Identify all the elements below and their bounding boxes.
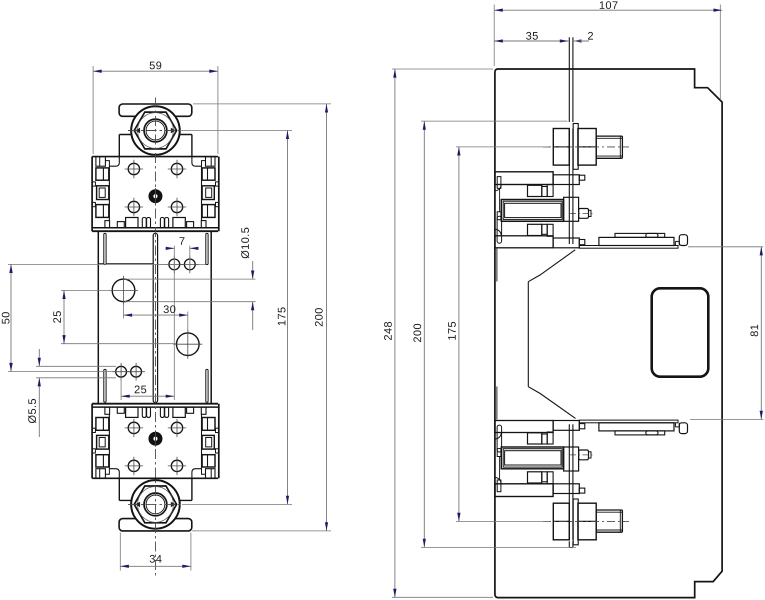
dim 200 [193,103,331,105]
bottom assembly (mirrored) [92,404,219,531]
dim 30 [123,303,125,319]
bottom clamp bracket (mirrored) [495,420,688,545]
dim 35 [494,40,568,42]
moulding diagonal bottom [528,387,575,419]
top assembly [92,104,219,231]
dim 50 [8,263,169,265]
dim 107 [493,5,495,67]
body step line upper [98,263,153,265]
inner wall line lower [496,387,498,420]
top nut centerline [128,130,183,132]
busbar blade bottom stub [568,541,570,547]
hole D10.5 right [177,333,200,356]
bottom nut centerline [128,503,183,505]
spring tab bottom-left [104,369,106,402]
hole pair upper A [169,259,180,270]
inner wall line upper [496,249,498,282]
top clamp bracket [495,124,688,249]
dim 81 [688,246,763,248]
label plate [652,288,709,376]
dim 175 [181,129,292,131]
main body outline [495,69,722,598]
dim 25 bottom [120,379,122,401]
spring tab bottom-right [206,369,208,402]
moulding diagonal top [528,250,575,282]
dim 25 left [61,289,112,291]
dim D10.5 [125,278,256,280]
dim 2 [573,39,582,42]
busbar blade top [568,37,570,122]
dim 200 right [421,120,568,122]
dim 248 [392,68,493,70]
vertical centerline [154,98,156,578]
moulding side vertical [527,282,529,387]
mid body right edge [210,231,212,404]
spring tab top-left [104,233,106,264]
hole D10.5 left [112,279,135,302]
dim 7 [173,246,175,400]
dim D5.5 [36,365,116,367]
dim 175 right [456,146,548,148]
dim 34 [119,533,121,571]
hole pair lower B [131,366,142,377]
hole pair lower A [116,366,127,377]
dim 59 [92,66,94,154]
mid body left edge [97,231,99,404]
hole pair upper B [184,259,195,270]
spring tab top-right [206,233,208,264]
center slot [153,233,157,402]
